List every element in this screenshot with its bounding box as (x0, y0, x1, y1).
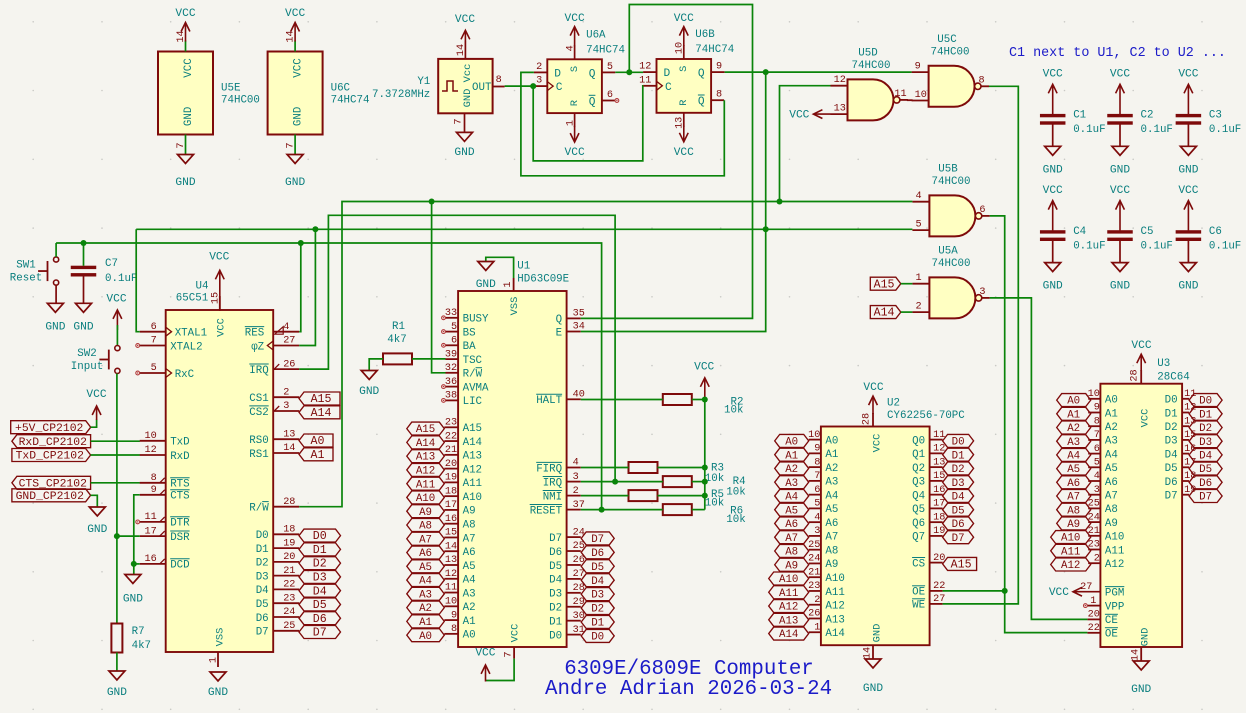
svg-text:12: 12 (144, 445, 156, 456)
svg-text:U5E: U5E (221, 83, 240, 95)
svg-text:C: C (665, 82, 672, 94)
label A15 at U4 CS1 (299, 392, 340, 406)
svg-text:RS0: RS0 (249, 435, 268, 447)
switch SW1 Reset (10, 257, 59, 285)
svg-text:RxD_CP2102: RxD_CP2102 (19, 437, 88, 449)
wire E/phi2 horizontal bus (136, 228, 912, 230)
svg-text:14: 14 (456, 44, 467, 56)
svg-text:GND: GND (285, 177, 305, 189)
U2 address pins A0-A14 (808, 430, 845, 640)
ground at R1 (359, 371, 379, 399)
resistor R5 10k at NMI (629, 489, 725, 510)
svg-text:5: 5 (1094, 458, 1100, 469)
svg-text:OE: OE (1105, 629, 1118, 641)
svg-text:D6: D6 (952, 519, 965, 531)
svg-text:5: 5 (607, 62, 613, 73)
svg-text:5: 5 (151, 363, 157, 374)
svg-text:D1: D1 (1199, 409, 1212, 421)
svg-text:D5: D5 (256, 599, 269, 611)
svg-text:U1: U1 (517, 260, 530, 272)
svg-text:15: 15 (445, 528, 457, 539)
junction R/W at U1 column (429, 199, 435, 205)
svg-text:A2: A2 (1105, 422, 1118, 434)
junction E net crossing (763, 226, 769, 232)
svg-text:A10: A10 (416, 493, 435, 505)
wire Q1 net to U1 Q (581, 5, 753, 319)
svg-text:D4: D4 (256, 585, 269, 597)
svg-text:VCC: VCC (1131, 340, 1151, 352)
svg-text:Q5: Q5 (912, 504, 925, 516)
svg-text:23: 23 (808, 581, 820, 592)
svg-text:3: 3 (536, 76, 542, 87)
svg-text:VCC: VCC (1110, 69, 1130, 81)
svg-text:CS2: CS2 (249, 407, 268, 419)
power VCC at pullup rail (694, 362, 714, 400)
svg-text:23: 23 (445, 418, 457, 429)
svg-text:32: 32 (445, 363, 457, 374)
wire SW1 top to reset net (55, 243, 57, 257)
svg-text:GND: GND (293, 107, 305, 126)
svg-text:Q: Q (589, 68, 596, 80)
svg-text:GND: GND (1178, 281, 1198, 293)
svg-text:TxD: TxD (170, 437, 189, 449)
svg-text:U6A: U6A (586, 29, 606, 41)
svg-text:8: 8 (151, 473, 157, 484)
svg-text:18: 18 (283, 525, 295, 536)
svg-text:A0: A0 (1105, 395, 1118, 407)
svg-text:E: E (556, 327, 562, 339)
wire R/W to U1 (432, 202, 446, 373)
svg-text:A15: A15 (463, 423, 482, 435)
EEPROM U3 28C64 (1100, 340, 1189, 696)
svg-text:GND: GND (872, 624, 884, 643)
svg-text:A12: A12 (779, 602, 798, 614)
svg-text:D2: D2 (952, 464, 965, 476)
svg-text:A0: A0 (825, 435, 838, 447)
svg-text:Q: Q (556, 314, 562, 326)
wire C7 top (83, 243, 85, 266)
IC U5E 74HC00 power unit (158, 8, 260, 189)
svg-text:A0: A0 (1067, 396, 1080, 408)
svg-text:6: 6 (151, 322, 157, 333)
svg-text:D6: D6 (591, 548, 604, 560)
U4 left pins (136, 322, 207, 572)
wire clock net to U6B C (533, 86, 643, 161)
svg-text:VCC: VCC (455, 14, 475, 26)
svg-text:VCC: VCC (1178, 185, 1198, 197)
svg-text:A8: A8 (785, 547, 798, 559)
svg-text:Q2: Q2 (912, 463, 925, 475)
svg-text:A4: A4 (785, 492, 798, 504)
svg-text:A12: A12 (1105, 559, 1124, 571)
svg-text:D3: D3 (1165, 436, 1178, 448)
svg-text:11: 11 (445, 583, 457, 594)
svg-text:U6B: U6B (695, 29, 715, 41)
svg-text:A12: A12 (463, 464, 482, 476)
junction E net at phi2 column (312, 226, 318, 232)
svg-text:IRQ: IRQ (249, 365, 268, 377)
svg-text:RTS: RTS (170, 479, 189, 491)
svg-text:Q7: Q7 (912, 532, 925, 544)
U1 data bus labels D7-D0 (581, 532, 614, 644)
title text Andre Adrian date (545, 678, 832, 701)
svg-text:A14: A14 (463, 437, 482, 449)
svg-text:D0: D0 (313, 530, 327, 543)
svg-text:74HC74: 74HC74 (331, 95, 370, 107)
svg-text:A13: A13 (779, 615, 798, 627)
svg-text:10k: 10k (726, 487, 745, 499)
wire pullup rail vertical (704, 400, 706, 510)
svg-text:GND: GND (863, 683, 883, 695)
svg-text:VCC: VCC (216, 318, 228, 337)
svg-text:VCC: VCC (789, 110, 809, 122)
flip-flop U6A 74HC74 (534, 13, 625, 159)
svg-text:A11: A11 (1105, 545, 1124, 557)
svg-text:13: 13 (834, 104, 846, 115)
svg-text:12: 12 (834, 75, 846, 86)
svg-text:Q4: Q4 (912, 490, 925, 502)
svg-text:GND: GND (208, 687, 228, 699)
svg-text:9: 9 (151, 485, 157, 496)
svg-text:VCC: VCC (183, 58, 195, 78)
svg-text:D0: D0 (256, 530, 269, 542)
svg-text:C3: C3 (1209, 110, 1222, 122)
power VCC at U5D pin13 (789, 110, 830, 122)
svg-text:0.1uF: 0.1uF (1073, 241, 1105, 253)
svg-text:A3: A3 (825, 477, 838, 489)
junction E net at U6B Q (763, 69, 769, 75)
svg-text:13: 13 (675, 117, 686, 129)
svg-text:7: 7 (504, 651, 515, 657)
svg-text:Andre Adrian 2026-03-24: Andre Adrian 2026-03-24 (545, 678, 832, 701)
svg-text:D1: D1 (313, 544, 327, 557)
svg-text:U6C: U6C (331, 83, 351, 95)
svg-text:10k: 10k (705, 473, 724, 485)
svg-text:19: 19 (283, 538, 295, 549)
svg-text:24: 24 (283, 607, 295, 618)
svg-text:23: 23 (283, 593, 295, 604)
svg-text:24: 24 (808, 554, 820, 565)
U2 data bus labels (943, 434, 974, 544)
svg-text:VCC: VCC (674, 147, 694, 159)
svg-text:10: 10 (808, 430, 820, 441)
svg-text:4: 4 (814, 512, 820, 523)
svg-text:OE: OE (912, 587, 925, 599)
junction rail at R4 (702, 479, 708, 485)
svg-text:74HC00: 74HC00 (932, 258, 971, 270)
global label +5V_CP2102 (11, 421, 91, 435)
svg-text:VCC: VCC (106, 293, 126, 305)
NAND gate U5B 74HC00 (912, 163, 989, 236)
svg-text:D2: D2 (256, 558, 269, 570)
wire R1 to TSC (412, 358, 446, 360)
svg-text:14: 14 (445, 541, 457, 552)
svg-text:C1 next to U1, C2 to U2 ...: C1 next to U1, C2 to U2 ... (1009, 46, 1226, 61)
label A15 at U5A pin1 (870, 277, 901, 291)
svg-text:CS: CS (912, 558, 925, 570)
svg-text:Y1: Y1 (417, 76, 430, 88)
svg-text:U5D: U5D (858, 47, 877, 59)
svg-text:A0: A0 (463, 630, 476, 642)
svg-text:U4: U4 (196, 281, 209, 293)
svg-text:28: 28 (1130, 369, 1141, 381)
svg-text:VCC: VCC (1110, 185, 1130, 197)
svg-text:DTR: DTR (170, 518, 190, 530)
svg-text:4: 4 (565, 45, 576, 51)
svg-text:A9: A9 (785, 560, 798, 572)
svg-text:21: 21 (808, 567, 820, 578)
svg-text:C2: C2 (1141, 110, 1154, 122)
wire C7 bottom (83, 276, 85, 303)
svg-text:20: 20 (1088, 610, 1100, 621)
svg-text:0.1uF: 0.1uF (1141, 241, 1173, 253)
svg-text:VCC: VCC (1049, 587, 1069, 599)
svg-text:RS1: RS1 (249, 449, 268, 461)
svg-text:D5: D5 (952, 505, 965, 517)
svg-text:26: 26 (283, 359, 295, 370)
svg-text:A1: A1 (825, 449, 838, 461)
svg-text:SW2: SW2 (77, 348, 96, 360)
ground below C7 (73, 303, 93, 333)
svg-text:2: 2 (283, 387, 289, 398)
svg-text:65C51: 65C51 (176, 293, 208, 305)
svg-text:A11: A11 (779, 588, 798, 600)
svg-text:17: 17 (445, 500, 457, 511)
svg-text:14: 14 (1131, 649, 1142, 661)
NAND gate U5A 74HC00 (912, 245, 989, 318)
svg-text:A2: A2 (419, 603, 432, 615)
svg-text:Q1: Q1 (912, 449, 925, 461)
svg-text:A1: A1 (311, 449, 325, 462)
svg-text:VCC: VCC (674, 13, 694, 25)
svg-text:A15: A15 (874, 278, 895, 291)
wire E net to U4 XTAL1 (136, 229, 140, 331)
svg-text:XTAL1: XTAL1 (175, 328, 207, 340)
wire IRQ net (299, 215, 615, 481)
ground at U4 DCD (123, 575, 143, 606)
svg-text:2: 2 (814, 595, 820, 606)
crystal oscillator Y1 7.3728MHz (372, 14, 505, 159)
title text 6309E/6809E Computer (564, 658, 814, 681)
svg-text:C5: C5 (1141, 226, 1154, 238)
svg-text:7: 7 (286, 142, 297, 148)
svg-text:D5: D5 (1199, 464, 1212, 476)
junction rail at R3 (702, 465, 708, 471)
svg-text:3: 3 (979, 287, 985, 298)
svg-text:VCC: VCC (209, 251, 229, 263)
wire VCC to SW2 top (116, 325, 118, 346)
svg-text:A15: A15 (311, 393, 332, 406)
svg-text:D0: D0 (952, 437, 965, 449)
svg-text:PGM: PGM (1105, 588, 1124, 600)
global label TxD_CP2102 (12, 449, 91, 463)
svg-text:D1: D1 (1165, 408, 1178, 420)
svg-text:D6: D6 (256, 613, 269, 625)
svg-text:8: 8 (814, 457, 820, 468)
svg-text:2: 2 (536, 62, 542, 73)
resistor R6 10k at RESET (663, 504, 746, 526)
svg-text:Q: Q (698, 68, 705, 80)
svg-text:D: D (554, 68, 561, 80)
junction OE net at U2 (1002, 588, 1008, 594)
svg-text:A7: A7 (785, 533, 798, 545)
svg-text:D6: D6 (1165, 477, 1178, 489)
svg-text:A14: A14 (779, 629, 798, 641)
U1 address bus labels A15-A0 (407, 422, 445, 643)
svg-text:3: 3 (283, 401, 289, 412)
svg-text:TSC: TSC (463, 355, 483, 367)
svg-text:14: 14 (863, 647, 874, 659)
svg-text:74HC74: 74HC74 (586, 44, 625, 56)
svg-text:A11: A11 (1061, 546, 1080, 558)
svg-text:A1: A1 (419, 617, 432, 629)
svg-text:10: 10 (915, 90, 927, 101)
svg-text:14: 14 (176, 30, 187, 42)
svg-text:D5: D5 (1165, 463, 1178, 475)
svg-text:10k: 10k (724, 405, 743, 417)
svg-text:D3: D3 (256, 571, 269, 583)
svg-text:Q: Q (589, 97, 596, 109)
svg-text:A15: A15 (416, 424, 435, 436)
svg-text:VCC: VCC (293, 58, 305, 78)
svg-text:BA: BA (463, 341, 476, 353)
svg-text:Q6: Q6 (912, 518, 925, 530)
svg-text:VCC: VCC (1178, 69, 1198, 81)
flip-flop U6B 74HC74 (639, 13, 734, 159)
svg-text:A13: A13 (825, 614, 844, 626)
capacitor C4 0.1uF with VCC/GND (1040, 185, 1106, 293)
label A14 at U4 CS2 (299, 406, 340, 420)
svg-text:9: 9 (814, 444, 820, 455)
svg-text:A12: A12 (825, 601, 844, 613)
svg-text:7.3728MHz: 7.3728MHz (372, 89, 430, 101)
U1 right pins (530, 309, 585, 643)
svg-text:5: 5 (451, 322, 457, 333)
svg-text:D3: D3 (1199, 437, 1212, 449)
U3 data bus labels (1189, 394, 1222, 504)
svg-text:C4: C4 (1073, 226, 1086, 238)
svg-text:GND: GND (183, 107, 195, 126)
svg-text:S: S (678, 66, 690, 72)
svg-text:CS1: CS1 (249, 393, 268, 405)
svg-text:12: 12 (639, 62, 651, 73)
svg-text:14: 14 (283, 443, 295, 454)
svg-text:A10: A10 (463, 492, 482, 504)
svg-text:A12: A12 (416, 466, 435, 478)
svg-text:4k7: 4k7 (387, 334, 406, 346)
svg-text:74HC00: 74HC00 (932, 176, 971, 188)
wire RESET to R6 (581, 509, 663, 511)
svg-text:VCC: VCC (872, 434, 884, 453)
svg-text:IRQ: IRQ (543, 477, 562, 489)
junction DSR net (114, 533, 120, 539)
svg-text:TxD_CP2102: TxD_CP2102 (16, 451, 85, 463)
svg-text:3: 3 (814, 526, 820, 537)
svg-text:8: 8 (1094, 416, 1100, 427)
svg-text:VCC: VCC (1043, 185, 1063, 197)
wire U5D out to U5C pin10 (907, 99, 913, 101)
power VCC above SW2 (106, 293, 126, 330)
svg-text:A0: A0 (311, 435, 325, 448)
svg-text:1: 1 (565, 120, 576, 126)
svg-text:U5C: U5C (937, 34, 957, 46)
svg-text:A3: A3 (463, 588, 476, 600)
svg-text:7: 7 (814, 471, 820, 482)
resistor R3 10k at FIRQ (629, 462, 725, 485)
svg-text:D5: D5 (591, 562, 604, 574)
svg-text:22: 22 (1088, 623, 1100, 634)
svg-text:A11: A11 (825, 587, 844, 599)
power VCC at +5V_CP2102 (86, 389, 106, 420)
svg-text:D7: D7 (952, 533, 965, 545)
svg-text:RESET: RESET (530, 505, 563, 517)
junction R/W at U5D column (777, 199, 783, 205)
svg-text:D0: D0 (1199, 396, 1212, 408)
svg-text:D0: D0 (591, 632, 604, 644)
wire OE net U5B out (990, 216, 1088, 633)
U1 left control pins (442, 308, 489, 408)
svg-text:A8: A8 (463, 519, 476, 531)
svg-text:C1: C1 (1073, 110, 1086, 122)
svg-text:A5: A5 (1067, 464, 1080, 476)
svg-text:10: 10 (675, 42, 686, 54)
svg-text:A10: A10 (1061, 533, 1080, 545)
wire R4 to rail (692, 481, 705, 483)
wire CE net U5A out to U3 (990, 298, 1088, 620)
svg-text:A8: A8 (419, 521, 432, 533)
svg-text:Q0: Q0 (912, 435, 925, 447)
wire U6A Q to U6B D (615, 71, 643, 73)
svg-text:XTAL2: XTAL2 (170, 341, 202, 353)
svg-text:9: 9 (451, 610, 457, 621)
svg-text:GND_CP2102: GND_CP2102 (16, 491, 85, 503)
svg-text:OUT: OUT (472, 82, 492, 94)
svg-text:SW1: SW1 (16, 260, 35, 272)
svg-text:FIRQ: FIRQ (536, 463, 562, 475)
svg-text:7: 7 (454, 118, 465, 124)
wire R7 to GND (116, 653, 118, 672)
capacitor C7 0.1uF (71, 258, 138, 285)
global label GND_CP2102 (12, 489, 91, 503)
svg-text:A7: A7 (1105, 491, 1118, 503)
svg-text:VSS: VSS (509, 297, 521, 316)
svg-text:A10: A10 (1105, 532, 1124, 544)
wire U4 DSR to SW2 net (117, 535, 140, 537)
svg-text:2: 2 (573, 486, 579, 497)
svg-text:19: 19 (445, 473, 457, 484)
svg-text:A3: A3 (785, 478, 798, 490)
wire U4 DCD to junction (134, 563, 140, 565)
label A0 at U4 RS0 (299, 434, 333, 448)
NAND gate U5D 74HC00 (831, 47, 908, 120)
U2 right pins (912, 430, 945, 612)
wire FIRQ to R3 (581, 467, 629, 469)
svg-text:D2: D2 (1165, 422, 1178, 434)
svg-text:38: 38 (445, 391, 457, 402)
svg-text:A14: A14 (311, 407, 332, 420)
svg-text:A4: A4 (419, 576, 432, 588)
U3 right pins (1165, 389, 1197, 503)
capacitor C1 0.1uF with VCC/GND (1040, 69, 1106, 177)
wire U6B Qbar to U6A D feedback (521, 72, 724, 175)
ground below R7 (107, 671, 127, 699)
svg-text:25: 25 (283, 621, 295, 632)
svg-text:4k7: 4k7 (132, 640, 151, 652)
label A14 at U5A pin2 (870, 306, 901, 320)
svg-text:28: 28 (283, 497, 295, 508)
svg-text:A2: A2 (463, 602, 476, 614)
svg-text:D2: D2 (313, 558, 327, 571)
